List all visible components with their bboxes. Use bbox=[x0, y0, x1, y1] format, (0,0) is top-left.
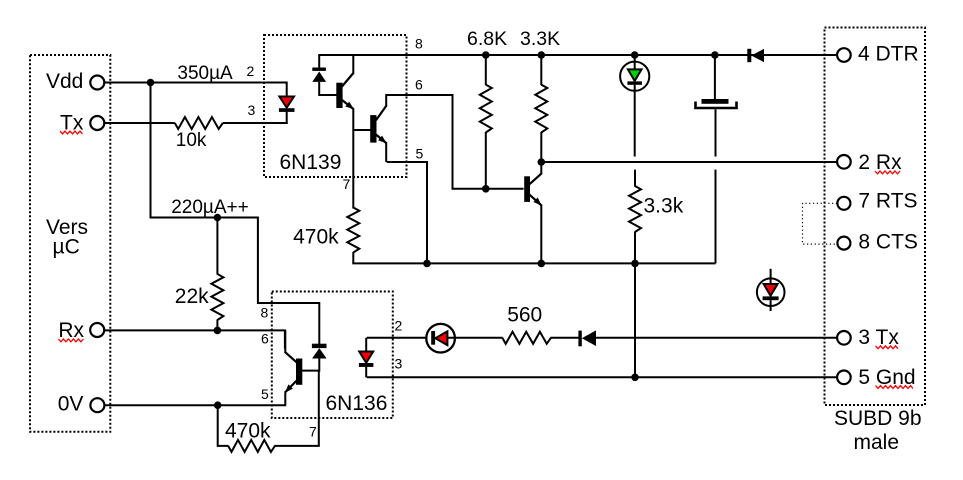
capacitor C1 bbox=[696, 55, 737, 263]
junction node Gnd rail bbox=[631, 374, 639, 382]
terminal Tx bbox=[60, 112, 104, 135]
label 22k bbox=[175, 285, 209, 308]
svg-text:10k: 10k bbox=[176, 130, 207, 151]
svg-text:Vdd: Vdd bbox=[46, 70, 83, 93]
wire Vdd branch down to 220uA rail bbox=[151, 83, 319, 304]
junction node green LED top bbox=[631, 51, 639, 59]
svg-text:8 CTS: 8 CTS bbox=[858, 230, 918, 253]
terminal 2 Rx bbox=[837, 151, 902, 174]
pin label 6 of 6N136 bbox=[261, 331, 269, 347]
terminal 0V bbox=[58, 392, 105, 415]
wire V+ top rail from 6N139 pin 8 to DTR diode bbox=[318, 54, 837, 56]
pin label 8 of 6N139 bbox=[415, 36, 423, 52]
RTS-CTS loopback dotted bracket bbox=[803, 203, 838, 244]
pin label 7 of 6N139 bbox=[343, 176, 351, 192]
svg-text:220µA++: 220µA++ bbox=[171, 197, 249, 218]
label 6.8K bbox=[467, 28, 507, 50]
wire Vdd to 6N139 pin 2 bbox=[104, 82, 286, 97]
junction node Vdd branch bbox=[147, 79, 155, 87]
junction node capacitor top bbox=[711, 51, 719, 59]
svg-text:6: 6 bbox=[261, 331, 269, 347]
resistor 560 bbox=[502, 332, 551, 344]
LED red inside 6N139 (input LED) bbox=[279, 97, 295, 112]
label 560 bbox=[507, 303, 542, 326]
pin label 2 of 6N136 bbox=[395, 318, 403, 334]
wire LED cathode to pin3 corner bbox=[286, 112, 288, 124]
svg-text:3: 3 bbox=[248, 102, 256, 118]
spellcheck squiggle under Rx of 2 Rx bbox=[875, 171, 900, 174]
svg-text:3 Tx: 3 Tx bbox=[858, 326, 899, 349]
LED red D5 in circle (Tx line series) bbox=[426, 324, 455, 353]
wire Tx to resistor 10k bbox=[104, 122, 175, 124]
svg-text:7 RTS: 7 RTS bbox=[858, 190, 917, 213]
svg-text:5: 5 bbox=[261, 386, 269, 402]
wire µC 0V to 6N136 pin 5 bbox=[104, 404, 286, 406]
spellcheck squiggle under Gnd of 5 Gnd bbox=[876, 386, 914, 389]
svg-text:6.8K: 6.8K bbox=[467, 28, 507, 50]
svg-text:470k: 470k bbox=[225, 420, 271, 443]
terminal 8 CTS bbox=[837, 230, 918, 253]
svg-text:SUBD 9b: SUBD 9b bbox=[834, 407, 922, 430]
junction node Q3 emitter-rail bbox=[538, 260, 546, 268]
diode D6 (Tx line) bbox=[578, 330, 596, 346]
transistor Q2 inside 6N139 (darlington output) bbox=[370, 94, 386, 162]
wire 6N136 pin 2 line bbox=[367, 337, 426, 339]
label SUBD 9b male bbox=[834, 407, 922, 454]
pin label 5 of 6N139 bbox=[416, 146, 424, 162]
pin label 7 of 6N136 bbox=[309, 424, 317, 440]
spellcheck squiggle under Tx bbox=[60, 131, 83, 134]
svg-text:22k: 22k bbox=[175, 285, 209, 308]
label Vers µC bbox=[46, 216, 88, 259]
terminal Vdd bbox=[46, 70, 104, 93]
junction node 3.3k-rail bbox=[631, 260, 639, 268]
pin label 8 of 6N136 bbox=[261, 305, 269, 321]
label 10k bbox=[176, 130, 207, 151]
svg-text:µC: µC bbox=[53, 236, 80, 259]
wire 6N136 pin 3 / Gnd line to 5 Gnd terminal bbox=[367, 376, 838, 378]
transistor Q4 inside 6N136 (phototransistor) bbox=[285, 330, 302, 405]
spellcheck squiggle under Tx of 3 Tx bbox=[876, 346, 899, 349]
wire Q1 emitter to Q2 base and pin 7 bbox=[353, 109, 370, 209]
wire 6N139 pin 6 to transistor Q3 base bbox=[387, 95, 524, 189]
resistor 470k (6N139 base bias) bbox=[347, 208, 359, 264]
terminal 3 Tx bbox=[837, 326, 899, 349]
svg-text:3.3K: 3.3K bbox=[520, 28, 560, 50]
svg-text:Rx: Rx bbox=[58, 319, 84, 342]
label 470k lower bbox=[225, 420, 271, 443]
wire 3.3k rail to Gnd rail bbox=[634, 263, 636, 377]
resistor 10k bbox=[175, 117, 223, 129]
terminal Rx bbox=[58, 319, 104, 342]
LED red inside 6N136 (output LED) bbox=[359, 338, 374, 378]
svg-text:0V: 0V bbox=[58, 392, 84, 415]
svg-text:5 Gnd: 5 Gnd bbox=[858, 366, 915, 389]
wire circled LED to 560 bbox=[447, 337, 502, 339]
label 350µA bbox=[177, 63, 233, 84]
wire 560 to diode D6 bbox=[550, 337, 579, 339]
svg-text:8: 8 bbox=[415, 36, 423, 52]
svg-text:5: 5 bbox=[416, 146, 424, 162]
label 6N139 bbox=[280, 151, 342, 174]
svg-text:3.3k: 3.3k bbox=[644, 195, 684, 218]
wire 10k to 6N139 pin 3 bbox=[223, 122, 288, 124]
svg-text:470k: 470k bbox=[293, 226, 339, 249]
label 3.3K bbox=[520, 28, 560, 50]
spellcheck squiggle under Rx bbox=[58, 339, 83, 342]
transistor Q3 (Rx line driver) bbox=[524, 161, 542, 263]
svg-text:350µA: 350µA bbox=[177, 63, 233, 84]
pin label 6 of 6N139 bbox=[415, 77, 423, 93]
svg-text:4 DTR: 4 DTR bbox=[858, 43, 919, 66]
wire 6N136 pin 7 down to 470k bbox=[318, 371, 320, 446]
diode D4 (DTR to V+) bbox=[747, 49, 764, 62]
wire Rx line to 2 Rx terminal bbox=[541, 161, 837, 163]
junction node 0V / 470k branch bbox=[214, 401, 222, 409]
resistor 6.8K bbox=[480, 55, 492, 189]
junction node 3.3K bottom / Rx line bbox=[538, 158, 546, 166]
svg-text:7: 7 bbox=[309, 424, 317, 440]
svg-text:8: 8 bbox=[261, 305, 269, 321]
microcontroller dotted outline box bbox=[30, 55, 110, 432]
label 6N136 bbox=[326, 392, 388, 415]
6N139 package dotted outline bbox=[264, 35, 407, 177]
transistor Q1 inside 6N139 (darlington input) bbox=[336, 54, 354, 109]
pin label 3 of 6N139 bbox=[248, 102, 256, 118]
pin label 5 of 6N136 bbox=[261, 386, 269, 402]
resistor 3.3k (green LED leg) bbox=[629, 170, 641, 264]
photodiode inside 6N136 bbox=[302, 302, 327, 372]
terminal 5 Gnd bbox=[837, 366, 916, 389]
wire µC Rx to 6N136 pin 6 bbox=[104, 330, 285, 348]
label 470k upper bbox=[293, 226, 339, 249]
svg-text:2: 2 bbox=[395, 318, 403, 334]
pin label 3 of 6N136 bbox=[395, 356, 403, 372]
label 220µA++ bbox=[171, 197, 249, 218]
label 3.3k bbox=[644, 195, 684, 218]
wire diode D6 to 3 Tx terminal bbox=[596, 337, 837, 339]
wire 6N139 pin 5 down to ground rail bbox=[387, 162, 427, 263]
SUBD 9b connector dotted outline bbox=[825, 28, 926, 406]
junction node 6.8K top bbox=[482, 51, 490, 59]
junction node pin5-rail bbox=[423, 260, 431, 268]
resistor 3.3K bbox=[535, 55, 547, 162]
junction node 22k top bbox=[214, 214, 222, 222]
svg-text:6N139: 6N139 bbox=[280, 151, 342, 174]
wire mid rail (emitter bus) bbox=[352, 262, 715, 264]
svg-text:6: 6 bbox=[415, 77, 423, 93]
svg-text:7: 7 bbox=[343, 176, 351, 192]
svg-text:6N136: 6N136 bbox=[326, 392, 388, 415]
svg-text:2: 2 bbox=[247, 63, 255, 79]
svg-text:560: 560 bbox=[507, 303, 542, 326]
resistor 470k lower bbox=[218, 405, 320, 452]
junction node 22k bottom / Rx line bbox=[214, 327, 222, 335]
svg-text:3: 3 bbox=[395, 356, 403, 372]
junction node 3.3K top bbox=[538, 51, 546, 59]
LED green indicator D3 bbox=[620, 55, 649, 157]
terminal 4 DTR bbox=[837, 43, 919, 66]
resistor 22k bbox=[211, 218, 223, 331]
pin label 2 of 6N139 bbox=[247, 63, 255, 79]
terminal 7 RTS bbox=[837, 190, 917, 213]
junction node 6.8K bottom / Q3 base bbox=[482, 185, 490, 193]
svg-text:male: male bbox=[854, 431, 900, 454]
photodiode inside 6N139 bbox=[312, 55, 337, 95]
6N136 package dotted outline bbox=[272, 292, 393, 419]
LED red indicator D7 (floating) bbox=[757, 269, 785, 311]
